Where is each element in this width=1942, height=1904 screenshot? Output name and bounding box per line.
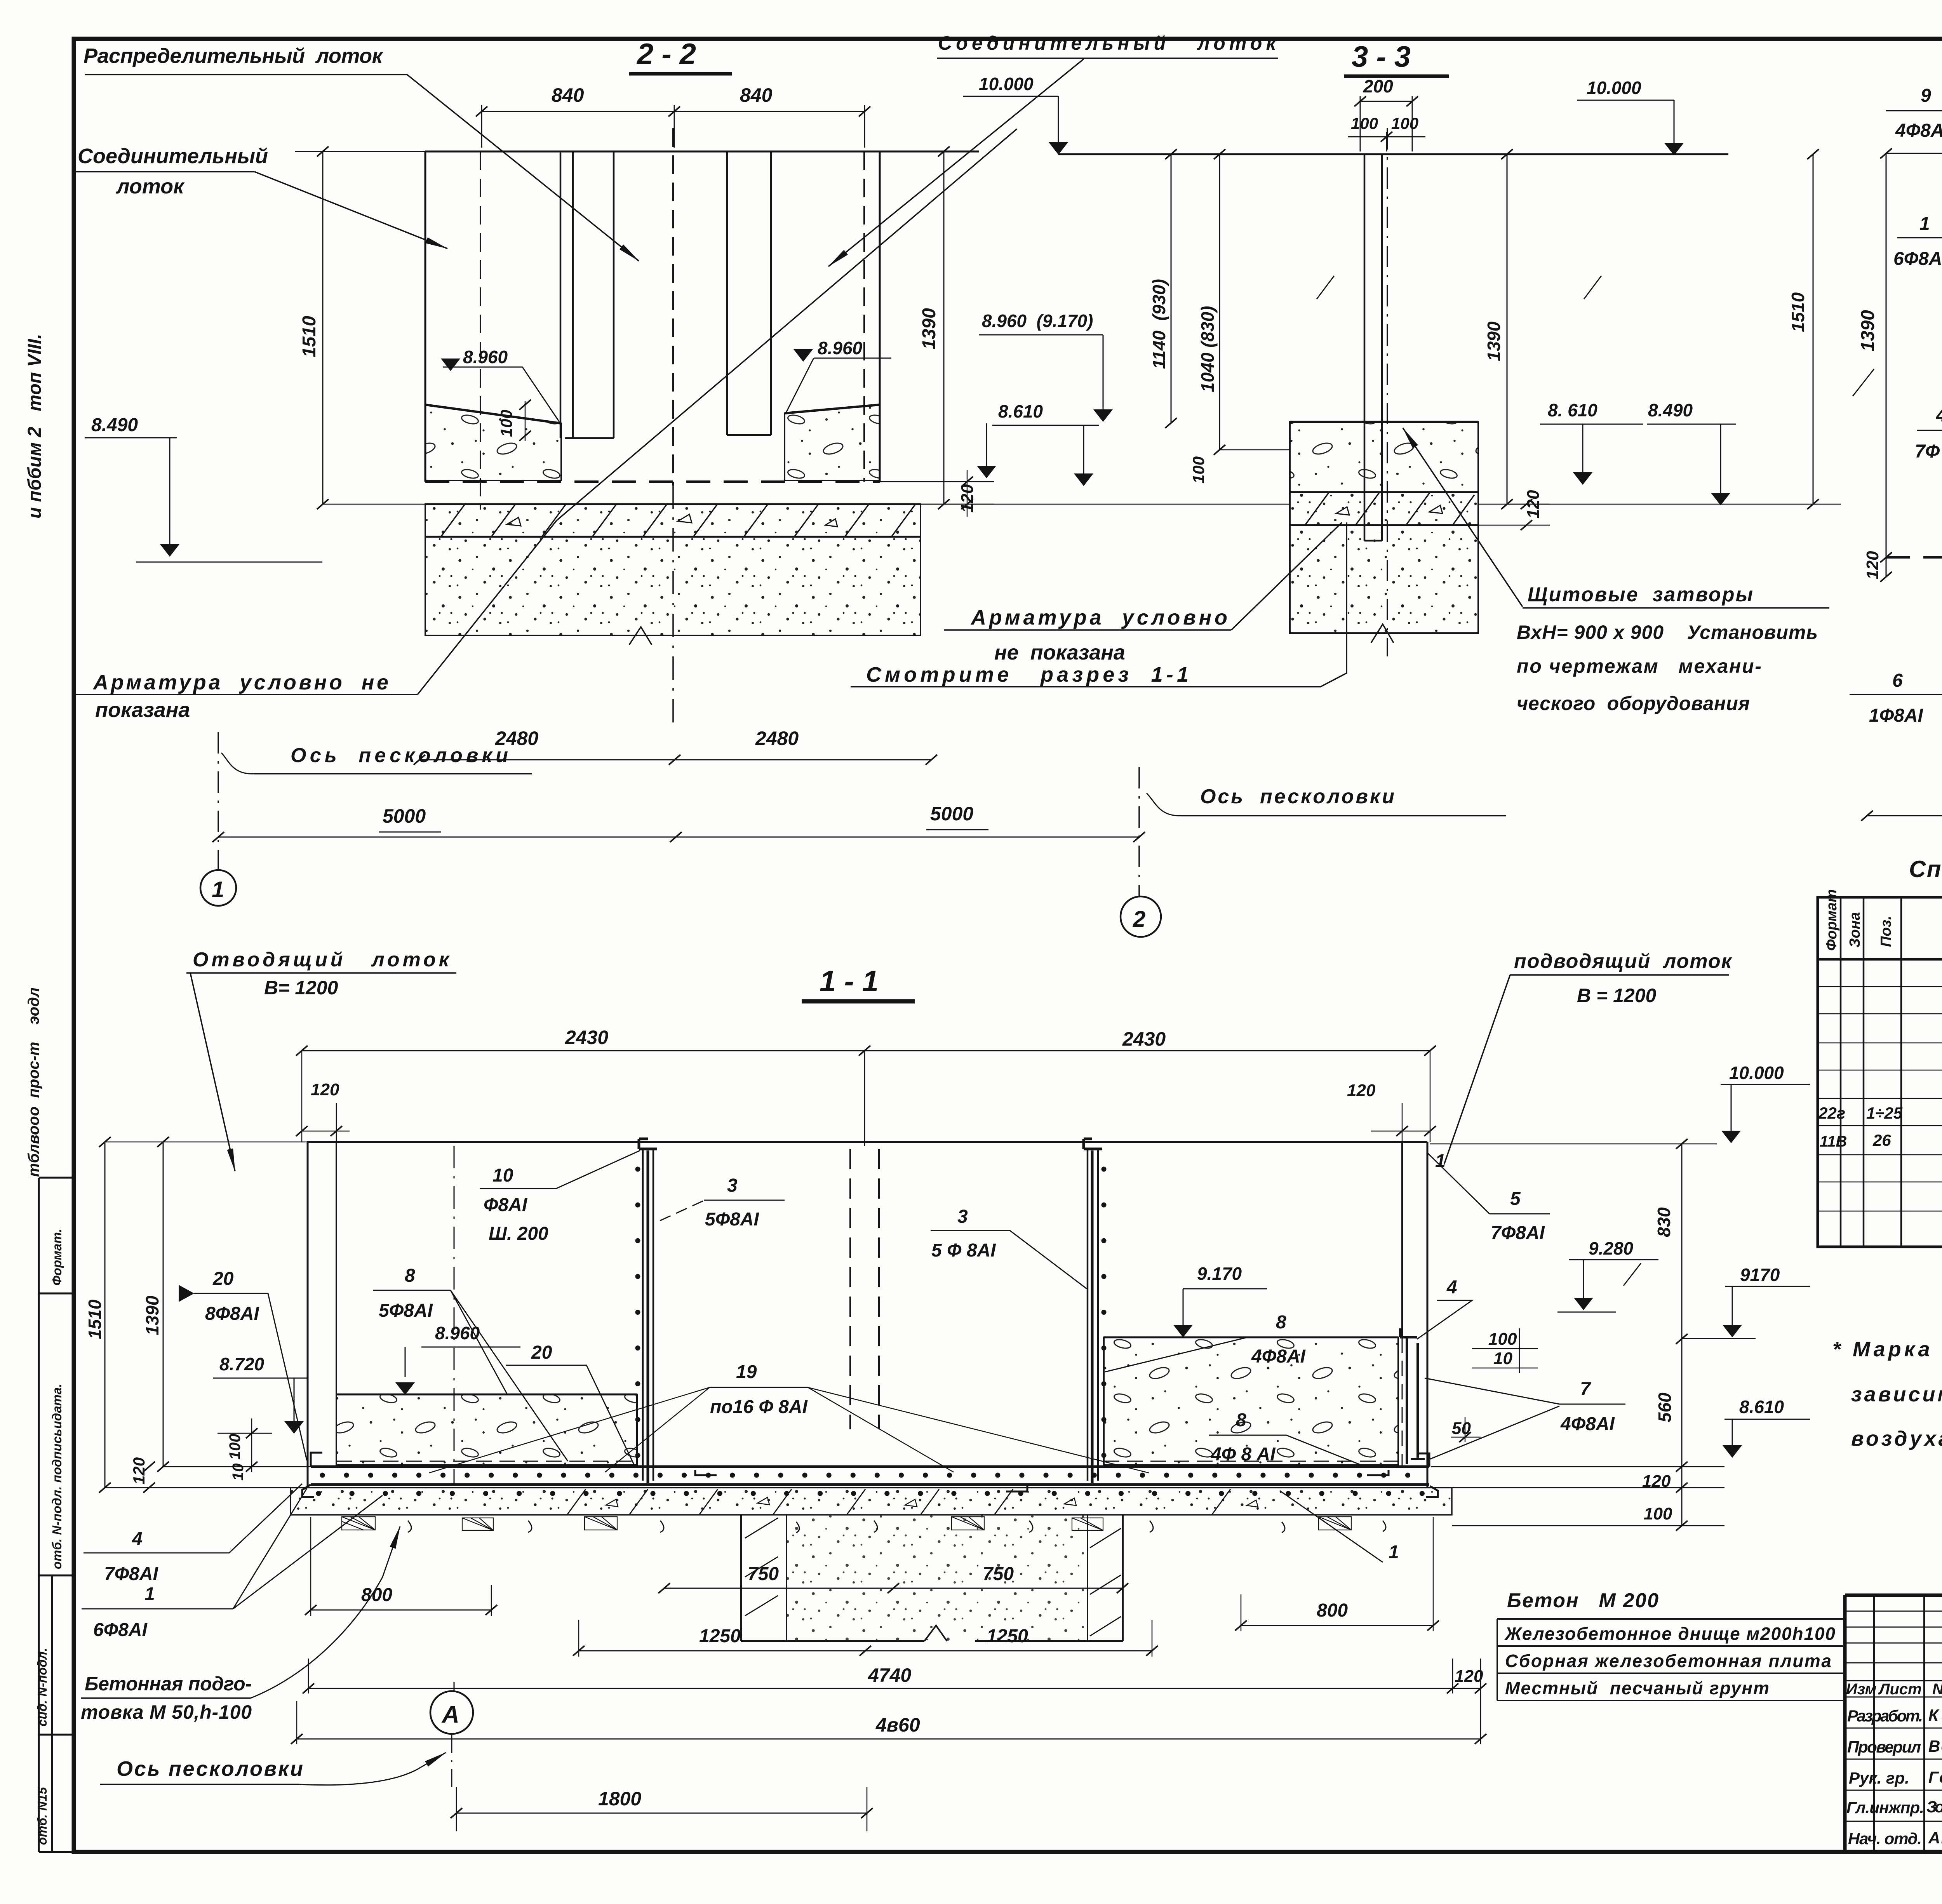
label Щитовые затворы: [1517, 583, 1818, 714]
svg-text:4: 4: [1936, 405, 1942, 426]
label 1/6Ф8АI: [93, 1584, 155, 1640]
label 4/7Ф8АI: [104, 1529, 159, 1584]
sub-base stipple: [1290, 525, 1478, 633]
wall centre dash-dot: [1387, 128, 1388, 656]
svg-text:100: 100: [1488, 1330, 1517, 1349]
dim 840|840: [482, 105, 865, 148]
svg-text:А: А: [441, 1701, 459, 1728]
svg-text:отб. N-подл. подписьидата.: отб. N-подл. подписьидата.: [50, 1384, 64, 1569]
signature rows: [1845, 1728, 1942, 1821]
right levels column: [1729, 1063, 1784, 1083]
label подводящий лоток B=1200: [1514, 950, 1733, 1006]
small dims 100 / 10: [226, 1434, 247, 1481]
svg-text:100: 100: [1644, 1504, 1672, 1523]
svg-text:ческого оборудования: ческого оборудования: [1517, 693, 1750, 714]
svg-text:10: 10: [492, 1165, 513, 1186]
label 3/5Ф8АI (2): [931, 1206, 996, 1261]
svg-text:1250: 1250: [987, 1626, 1028, 1646]
right thin wall with rebar: [1088, 1149, 1098, 1481]
svg-text:2 - 2: 2 - 2: [636, 38, 696, 71]
dim 3850|3850: [1867, 815, 1942, 816]
svg-text:Золотаревский: Золотаревский: [1926, 1798, 1942, 1816]
svg-text:Ш. 200: Ш. 200: [489, 1224, 548, 1244]
channel walls verticals: [425, 151, 426, 482]
label 3/5Ф8АI (1): [705, 1175, 760, 1230]
svg-text:11В: 11В: [1820, 1133, 1847, 1150]
axis 2: [1138, 767, 1140, 896]
svg-text:19: 19: [736, 1362, 757, 1382]
dashed channel bottom: [425, 480, 880, 483]
svg-text:Соединительный: Соединительный: [78, 144, 268, 168]
svg-text:показана: показана: [95, 698, 190, 722]
central precast slab pedestal: [741, 1515, 1123, 1641]
label: Арматура условно не показана: [92, 671, 388, 722]
svg-text:Поз.: Поз.: [1878, 916, 1894, 947]
level 8.610 left: [998, 401, 1043, 421]
level line 8.490 row right: [880, 504, 1290, 505]
svg-text:3: 3: [957, 1206, 968, 1227]
ground squiggles: [408, 1521, 1386, 1533]
level 8.490 left: [91, 415, 138, 435]
svg-text:9170: 9170: [1740, 1265, 1780, 1285]
axis 1: [218, 732, 219, 870]
header texts: [1824, 889, 1942, 951]
svg-text:4Ф8АI: 4Ф8АI: [1560, 1414, 1615, 1434]
level 10.000 right: [1587, 78, 1641, 98]
left thin wall with rebar: [643, 1149, 653, 1481]
level 8.720: [219, 1354, 265, 1374]
svg-text:Железобетонное днище м200h100: Железобетонное днище м200h100: [1504, 1624, 1835, 1644]
svg-text:8.610: 8.610: [998, 401, 1043, 421]
svg-text:26: 26: [1872, 1131, 1891, 1149]
svg-text:товка М 50,h-100: товка М 50,h-100: [81, 1701, 252, 1723]
svg-text:N докум.: N докум.: [1932, 1681, 1942, 1698]
svg-text:Бетонная подго-: Бетонная подго-: [85, 1673, 252, 1695]
svg-text:1510: 1510: [1788, 292, 1808, 332]
left dim 120: [130, 1457, 148, 1485]
svg-text:3: 3: [727, 1175, 738, 1196]
foundation slab top: [425, 503, 921, 505]
svg-text:Формат: Формат: [1824, 889, 1840, 951]
right concrete fill: [1104, 1337, 1398, 1465]
svg-text:Формат.: Формат.: [50, 1229, 64, 1286]
svg-text:830: 830: [1654, 1207, 1674, 1237]
svg-text:20: 20: [531, 1342, 552, 1363]
dim 120 top left: [311, 1080, 339, 1099]
svg-text:В = 1200: В = 1200: [1577, 985, 1657, 1006]
label 8/4Ф8АI upper: [1251, 1312, 1306, 1367]
label: Соединительный лоток (left): [78, 144, 268, 198]
level 8.960 left: [442, 359, 459, 370]
svg-text:2430: 2430: [565, 1027, 608, 1048]
svg-text:8.610: 8.610: [1739, 1397, 1784, 1417]
svg-text:560: 560: [1655, 1392, 1675, 1422]
left margin rotated text: [24, 334, 64, 1845]
svg-text:120: 120: [311, 1080, 339, 1099]
svg-text:1250: 1250: [699, 1626, 741, 1646]
svg-text:5 Ф 8АI: 5 Ф 8АI: [931, 1240, 996, 1261]
top line: [307, 1141, 1427, 1143]
svg-text:800: 800: [1317, 1600, 1348, 1621]
svg-text:1390: 1390: [1484, 321, 1504, 361]
spec table grid: [1818, 897, 1942, 1247]
svg-text:4в60: 4в60: [875, 1714, 920, 1736]
svg-text:2: 2: [1133, 907, 1145, 932]
dim 100 (left fill): [497, 410, 515, 437]
dim 120 left bottom: [1863, 551, 1882, 580]
svg-text:7Ф8АI: 7Ф8АI: [104, 1564, 159, 1584]
svg-text:ВхН= 900 х 900 Установить: ВхН= 900 х 900 Установить: [1517, 621, 1818, 643]
svg-text:5000: 5000: [930, 803, 973, 825]
svg-text:120: 120: [1347, 1081, 1376, 1100]
svg-text:4Ф 8 АI: 4Ф 8 АI: [1211, 1444, 1276, 1465]
svg-text:10.000: 10.000: [979, 74, 1034, 94]
slab top line: [1290, 491, 1478, 493]
svg-text:20: 20: [212, 1269, 234, 1289]
left concrete fill block: [425, 405, 561, 480]
level 10.000 left: [979, 74, 1034, 94]
svg-text:8. 610: 8. 610: [1548, 400, 1597, 420]
svg-text:100: 100: [1351, 114, 1378, 132]
left concrete fill: [336, 1394, 637, 1465]
label 1/6Ф8АI left: [1893, 214, 1942, 269]
label 9/4Ф8АI left: [1895, 85, 1942, 141]
label 1 (wall pos): [1435, 1151, 1446, 1171]
svg-text:Разработ.: Разработ.: [1847, 1707, 1923, 1725]
break marks on walls: [1317, 276, 1601, 299]
svg-text:В= 1200: В= 1200: [264, 977, 338, 999]
svg-text:120: 120: [1863, 551, 1882, 580]
label: Смотрите разрез 1-1: [866, 663, 1189, 686]
revision rows: [1845, 1611, 1942, 1697]
dim 200: [1363, 76, 1393, 96]
dim 5000|5000: [218, 837, 1139, 838]
svg-text:100: 100: [497, 410, 515, 437]
svg-text:и пббим 2 топ VIII.: и пббим 2 топ VIII.: [24, 334, 45, 519]
levels 8.610 / 8.490 right: [1548, 400, 1693, 420]
outer walls: [307, 1142, 309, 1488]
label 4/7Ф8АI: [1915, 405, 1942, 462]
svg-text:Ось песколовки: Ось песколовки: [117, 1757, 303, 1780]
label 8/4Ф8АI lower: [1211, 1410, 1276, 1465]
svg-text:200: 200: [1363, 76, 1393, 96]
label Бетонная подготовка: [81, 1673, 252, 1723]
svg-text:Воробъева: Воробъева: [1928, 1737, 1942, 1755]
dim 800 right: [1241, 1625, 1433, 1626]
svg-text:3 - 3: 3 - 3: [1352, 40, 1411, 73]
label 7/4Ф8АI right: [1560, 1379, 1615, 1434]
svg-text:4: 4: [132, 1529, 143, 1549]
svg-text:8.490: 8.490: [91, 415, 138, 435]
dim 800 left: [311, 1610, 491, 1611]
dim 4860: [297, 1739, 1481, 1740]
svg-text:по16 Ф 8АI: по16 Ф 8АI: [710, 1397, 808, 1417]
bedding strip (подготовка): [291, 1488, 1452, 1515]
dim 1250|1250: [579, 1650, 1152, 1652]
ground top line: [425, 151, 979, 153]
svg-text:1: 1: [212, 877, 224, 902]
svg-text:5: 5: [1510, 1189, 1521, 1209]
svg-text:1800: 1800: [598, 1788, 641, 1810]
svg-text:Нач. отд.: Нач. отд.: [1848, 1829, 1922, 1848]
svg-text:Изм: Изм: [1846, 1681, 1876, 1698]
dim 120 right of 3-3: [1524, 490, 1543, 519]
section title 3-3: [1352, 40, 1411, 73]
label: Распределительный лоток: [84, 44, 384, 68]
label 8/5Ф8АI + 8.960: [379, 1265, 433, 1321]
svg-text:Рук. гр.: Рук. гр.: [1849, 1769, 1909, 1787]
svg-text:по чертежам механи-: по чертежам механи-: [1517, 655, 1761, 677]
dim 1510 left: [322, 151, 324, 504]
level 8.960 (9.170): [982, 311, 1093, 331]
label Бетон М 200: [1507, 1589, 1658, 1612]
svg-text:2430: 2430: [1122, 1028, 1166, 1050]
svg-text:Бетон М 200: Бетон М 200: [1507, 1589, 1658, 1612]
label 1 lower + leader: [1389, 1542, 1399, 1563]
svg-text:7Ф 8АI: 7Ф 8АI: [1915, 441, 1942, 462]
label 10/Ф8АI/Ш.200 left: [484, 1165, 548, 1244]
svg-text:100: 100: [1189, 456, 1208, 484]
dims 1140(930) / 1040(830) left: [1171, 154, 1220, 450]
svg-text:5Ф8АI: 5Ф8АI: [379, 1300, 433, 1321]
svg-text:1390: 1390: [1858, 310, 1878, 352]
label 20/8Ф8АI: [205, 1269, 260, 1324]
left columns: [1874, 1595, 1942, 1852]
svg-text:1÷25: 1÷25: [1866, 1104, 1903, 1122]
svg-text:1: 1: [144, 1584, 155, 1605]
svg-text:120: 120: [1455, 1667, 1483, 1686]
svg-text:8.720: 8.720: [219, 1354, 265, 1374]
leader: [254, 172, 447, 249]
svg-text:2480: 2480: [755, 727, 799, 749]
svg-text:4Ф8АI: 4Ф8АI: [1251, 1346, 1306, 1367]
material rows table: [1497, 1619, 1843, 1700]
A axis dash-dot: [454, 1146, 455, 1486]
svg-text:4740: 4740: [868, 1664, 911, 1686]
svg-text:5000: 5000: [383, 805, 426, 827]
label Отводящий лоток B=1200: [193, 949, 450, 999]
svg-text:зависимости от расчетной: зависимости от расчетной температуры нар…: [1851, 1383, 1942, 1406]
leader to distribution channel: [407, 75, 639, 261]
svg-text:Местный песчаный грунт: Местный песчаный грунт: [1505, 1678, 1769, 1698]
bedding hatched strip: [1290, 492, 1478, 525]
dashed slab axis: [1886, 556, 1942, 559]
svg-text:100: 100: [1391, 114, 1418, 132]
svg-text:840: 840: [552, 84, 584, 106]
svg-text:8.960 (9.170): 8.960 (9.170): [982, 311, 1093, 331]
svg-text:8: 8: [1236, 1410, 1246, 1431]
svg-text:Зона: Зона: [1847, 912, 1863, 948]
dim 2480|2480: [419, 759, 931, 761]
table rows content: [1818, 963, 1942, 1238]
node circle 2: [1121, 896, 1161, 937]
svg-text:1 - 1: 1 - 1: [820, 965, 879, 998]
leader down-left into right channel: [828, 59, 1084, 266]
svg-text:Проверил: Проверил: [1847, 1738, 1921, 1756]
svg-text:8Ф8АI: 8Ф8АI: [205, 1304, 260, 1324]
svg-text:10: 10: [1493, 1349, 1512, 1368]
svg-text:отб. N15: отб. N15: [35, 1787, 49, 1845]
svg-text:1510: 1510: [299, 316, 320, 357]
svg-text:Распределительный лоток: Распределительный лоток: [84, 44, 384, 68]
svg-text:10.000: 10.000: [1587, 78, 1641, 98]
svg-text:10.000: 10.000: [1729, 1063, 1784, 1083]
svg-text:1040 (830): 1040 (830): [1197, 306, 1218, 393]
svg-text:6Ф8АI: 6Ф8АI: [93, 1620, 148, 1640]
svg-text:4Ф8АI: 4Ф8АI: [1895, 120, 1942, 141]
revision header texts: [1846, 1681, 1942, 1698]
svg-text:1: 1: [1435, 1151, 1446, 1171]
svg-text:10: 10: [230, 1464, 247, 1481]
svg-text:1390: 1390: [919, 308, 940, 350]
dim 1390 right: [943, 151, 945, 504]
spec table title: [1909, 856, 1942, 882]
left dim 1510: [104, 1142, 106, 1488]
concrete fill block: [1290, 422, 1478, 492]
svg-text:8.490: 8.490: [1648, 400, 1693, 420]
label 19/по16Ф8АI: [710, 1362, 808, 1417]
level 9.170 mid: [1197, 1264, 1242, 1284]
svg-text:5Ф8АI: 5Ф8АI: [705, 1209, 760, 1230]
level arrow 8.610 right of 2-2: [978, 466, 995, 477]
svg-text:сид. N-подл.: сид. N-подл.: [35, 1648, 49, 1726]
svg-text:8: 8: [405, 1265, 415, 1286]
center axis continues: [672, 486, 674, 730]
wall (gate slot): [1364, 154, 1382, 541]
svg-text:22г: 22г: [1818, 1104, 1845, 1122]
floor slab rebar band: [311, 1465, 1429, 1468]
svg-text:не показана: не показана: [994, 641, 1125, 664]
svg-text:9.170: 9.170: [1197, 1264, 1242, 1284]
dim 50: [1452, 1419, 1471, 1438]
node circle A: [430, 1691, 473, 1734]
svg-text:1510: 1510: [85, 1299, 105, 1339]
dim 100 small left: [1189, 456, 1208, 484]
svg-text:750: 750: [983, 1564, 1014, 1584]
svg-text:6Ф8АI: 6Ф8АI: [1893, 249, 1942, 269]
svg-text:1: 1: [1919, 214, 1930, 234]
dashed axes: [480, 151, 481, 510]
label Ось песколовки (1): [291, 744, 508, 767]
dim 1390 left: [1886, 153, 1887, 577]
svg-text:Гольдина: Гольдина: [1928, 1768, 1942, 1786]
label Ось песколовки (2): [1200, 785, 1394, 808]
hatched bedding strip: [425, 504, 921, 537]
svg-text:7: 7: [1580, 1379, 1591, 1399]
svg-text:4: 4: [1446, 1277, 1457, 1298]
dim 750|750: [664, 1588, 1122, 1589]
svg-text:подводящий лоток: подводящий лоток: [1514, 950, 1733, 973]
label 5/7Ф8АI: [1491, 1189, 1545, 1243]
svg-text:Лист: Лист: [1878, 1681, 1922, 1698]
svg-text:9.280: 9.280: [1589, 1238, 1634, 1258]
svg-text:1390: 1390: [142, 1295, 162, 1335]
dim 120 right: [958, 484, 977, 513]
svg-text:8.960: 8.960: [818, 338, 863, 358]
ground cross-hatch patches: [342, 1517, 1351, 1530]
dim 4740 + 120: [308, 1688, 1481, 1689]
left dim 1390: [163, 1142, 164, 1467]
section title 2-2: [636, 38, 696, 71]
svg-text:Арматура условно: Арматура условно: [970, 606, 1227, 629]
svg-text:Ф8АI: Ф8АI: [484, 1195, 528, 1215]
svg-text:8: 8: [1276, 1312, 1286, 1333]
level 8.960 right: [795, 350, 811, 360]
svg-text:8.960: 8.960: [435, 1323, 480, 1343]
dims 100 / 10 right wall: [1488, 1330, 1517, 1368]
floor hooks: [302, 1453, 1438, 1497]
label 4 right: [1446, 1277, 1457, 1298]
svg-text:8.960: 8.960: [463, 347, 508, 367]
dim 1510 far right: [1813, 154, 1814, 504]
svg-text:100: 100: [226, 1434, 244, 1460]
sub-base stipple block: [425, 537, 921, 635]
title block outline: [1845, 1595, 1942, 1852]
node circle 1: [200, 870, 236, 906]
dim 120 top right: [1347, 1081, 1376, 1100]
svg-text:Андрианов: Андрианов: [1928, 1829, 1942, 1847]
svg-text:Спецификация элементов моноли: Спецификация элементов монолитной констр…: [1909, 856, 1942, 882]
right small hook bars (pos 7): [1407, 1337, 1418, 1464]
ground top line: [1058, 153, 1728, 155]
svg-text:1Ф8АI: 1Ф8АI: [1869, 705, 1924, 726]
dim 1800: [456, 1813, 867, 1814]
label 6/1Ф8АI bottom left: [1869, 670, 1924, 726]
svg-text:9: 9: [1921, 85, 1931, 106]
svg-text:6: 6: [1892, 670, 1903, 691]
section title 1-1: [820, 965, 879, 998]
svg-text:1: 1: [1389, 1542, 1399, 1563]
svg-text:тблвооо прос-т эодл: тблвооо прос-т эодл: [25, 987, 42, 1177]
ground level line: [1886, 153, 1942, 154]
right concrete fill block: [785, 405, 880, 480]
svg-text:7Ф8АI: 7Ф8АI: [1491, 1223, 1545, 1243]
dim 100 100: [1351, 114, 1418, 132]
dim 1390 right of 3-3: [1507, 154, 1508, 504]
centre double dashed axis: [849, 1149, 851, 1429]
svg-text:1140 (930): 1140 (930): [1149, 279, 1169, 369]
label: Соединительный лоток (top middle): [938, 32, 1277, 54]
svg-text:840: 840: [740, 84, 773, 106]
label Арматура условно не показана (3-3): [970, 606, 1227, 664]
svg-text:Гл.инжпр.: Гл.инжпр.: [1846, 1798, 1924, 1817]
left stamp boxes column: [39, 1178, 74, 1852]
svg-text:750: 750: [748, 1564, 779, 1584]
label Ось песколовки (bottom): [117, 1757, 303, 1780]
svg-text:лоток: лоток: [115, 175, 185, 198]
dim 2430|2430 top: [302, 1050, 1430, 1051]
label 20 mid: [531, 1342, 552, 1363]
